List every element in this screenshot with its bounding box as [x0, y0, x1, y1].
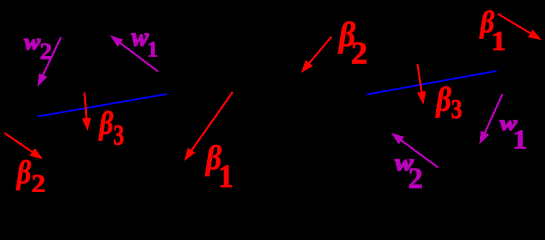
svg-text:1: 1	[491, 26, 506, 56]
svg-text:3: 3	[113, 120, 124, 152]
svg-text:2: 2	[40, 39, 52, 64]
svg-text:β: β	[98, 105, 113, 141]
svg-text:2: 2	[408, 163, 423, 192]
svg-text:1: 1	[147, 36, 158, 61]
svg-text:2: 2	[351, 35, 368, 70]
svg-text:β: β	[16, 154, 32, 191]
svg-text:2: 2	[31, 169, 45, 192]
svg-text:1: 1	[218, 158, 233, 192]
svg-text:w: w	[24, 30, 40, 55]
svg-text:β: β	[435, 81, 452, 118]
svg-text:1: 1	[513, 125, 528, 155]
svg-text:3: 3	[451, 95, 462, 124]
